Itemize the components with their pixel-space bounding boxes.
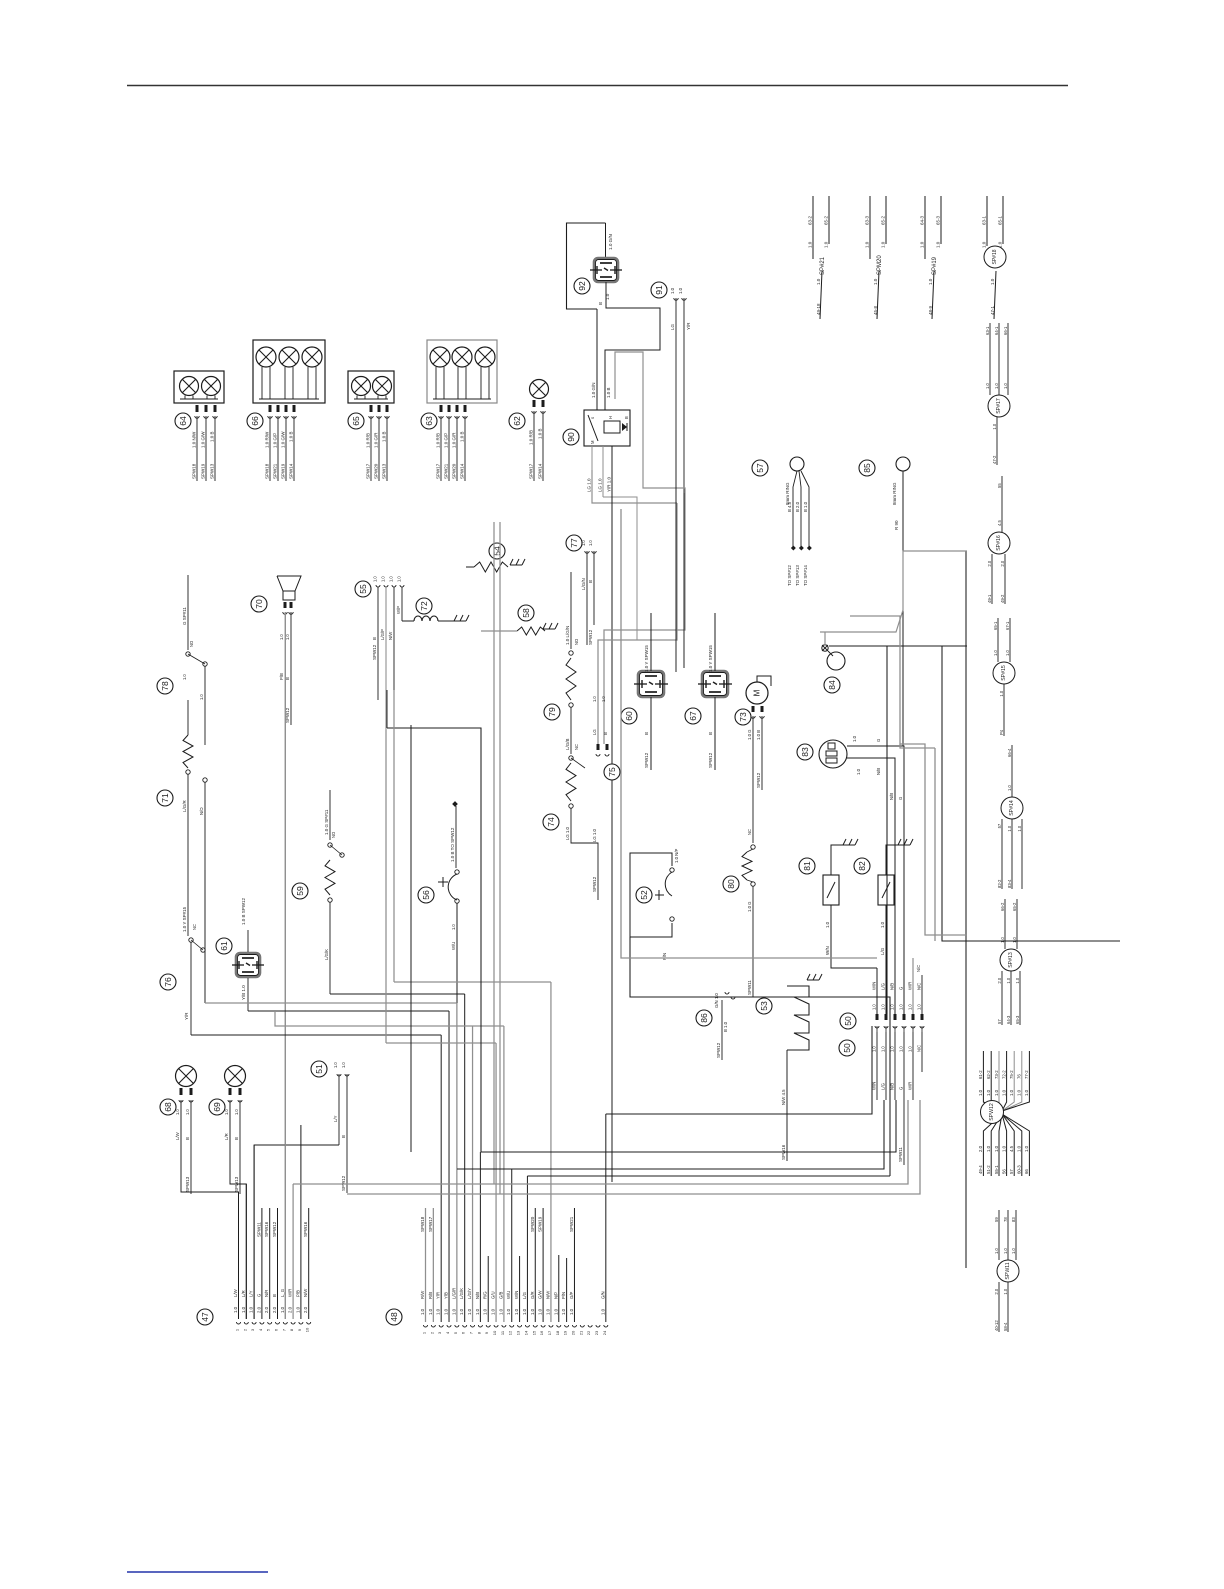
svg-text:1.0 G/R: 1.0 G/R	[452, 432, 457, 448]
svg-text:1.0: 1.0	[182, 674, 187, 680]
svg-text:51-2: 51-2	[986, 1165, 991, 1174]
svg-text:L/G: L/G	[881, 1082, 886, 1090]
svg-text:1.0: 1.0	[986, 1089, 991, 1096]
svg-text:61: 61	[219, 941, 229, 951]
svg-text:SPW18: SPW18	[192, 463, 197, 479]
svg-text:76: 76	[163, 977, 173, 987]
svg-text:SPW18: SPW18	[265, 463, 270, 479]
svg-text:B 1.0: B 1.0	[803, 501, 808, 512]
svg-text:1.0: 1.0	[234, 1109, 239, 1115]
svg-text:N/C: N/C	[916, 965, 921, 972]
svg-text:N/B: N/B	[889, 793, 894, 800]
svg-text:50: 50	[843, 1016, 853, 1026]
svg-text:1.0: 1.0	[917, 1004, 922, 1010]
svg-text:83: 83	[800, 747, 810, 757]
svg-text:SPW20: SPW20	[530, 1216, 535, 1232]
svg-text:65-2: 65-2	[824, 215, 829, 225]
svg-text:L/G: L/G	[880, 947, 885, 955]
svg-text:SPW11: SPW11	[1005, 1262, 1011, 1279]
svg-text:1.0: 1.0	[279, 634, 284, 640]
svg-text:L/G/K: L/G/K	[459, 1288, 464, 1299]
svg-text:W/N: W/N	[514, 1291, 519, 1299]
svg-text:1.0 R/W: 1.0 R/W	[265, 431, 270, 448]
svg-text:18: 18	[555, 1330, 560, 1335]
svg-text:57: 57	[1009, 1169, 1014, 1174]
svg-text:1.0: 1.0	[824, 241, 829, 248]
svg-text:78: 78	[160, 681, 170, 691]
svg-text:1.0: 1.0	[588, 540, 593, 546]
svg-text:L/R: L/R	[241, 1290, 246, 1297]
svg-text:B: B	[341, 1135, 346, 1138]
svg-text:86: 86	[699, 1013, 709, 1023]
svg-text:SPW17: SPW17	[529, 463, 534, 479]
svg-text:57: 57	[997, 1019, 1002, 1024]
svg-text:B: B	[598, 302, 603, 305]
svg-text:1.0: 1.0	[592, 696, 597, 702]
svg-text:91: 91	[654, 285, 664, 295]
svg-text:1.0 B: 1.0 B	[756, 730, 761, 740]
svg-text:1.0: 1.0	[600, 1308, 605, 1315]
svg-text:1.0: 1.0	[545, 1308, 550, 1315]
svg-text:SPM20: SPM20	[877, 255, 883, 275]
svg-text:65-3: 65-3	[936, 215, 941, 225]
svg-text:1.0: 1.0	[1003, 383, 1008, 389]
svg-text:78: 78	[1003, 1217, 1008, 1222]
svg-text:90: 90	[566, 432, 576, 442]
svg-text:1.0: 1.0	[1007, 785, 1012, 791]
svg-text:65-2: 65-2	[881, 215, 886, 225]
svg-text:61-2: 61-2	[978, 1070, 983, 1079]
svg-text:8mm RING: 8mm RING	[785, 482, 790, 505]
svg-text:1.0: 1.0	[397, 576, 402, 582]
svg-text:L/G/P: L/G/P	[380, 629, 385, 640]
svg-text:R/G: R/G	[483, 1291, 488, 1299]
svg-text:1.0: 1.0	[249, 1306, 254, 1313]
svg-text:58: 58	[521, 608, 531, 618]
svg-text:71: 71	[160, 793, 170, 803]
svg-text:66-2: 66-2	[1000, 902, 1005, 911]
svg-text:2.0: 2.0	[303, 1306, 308, 1313]
svg-text:Y/R: Y/R	[686, 322, 691, 330]
svg-text:TO SP#12: TO SP#12	[787, 565, 792, 586]
svg-text:1.0 B: 1.0 B	[210, 431, 215, 442]
svg-text:67-1: 67-1	[1005, 621, 1010, 630]
svg-text:SPW12: SPW12	[592, 876, 597, 892]
svg-text:1.0: 1.0	[992, 423, 997, 429]
svg-text:59: 59	[994, 1217, 999, 1222]
svg-text:SPW13: SPW13	[382, 463, 387, 479]
svg-text:L/R: L/R	[224, 1133, 229, 1140]
svg-text:1.0: 1.0	[852, 735, 857, 742]
svg-text:2.0: 2.0	[987, 560, 992, 566]
svg-text:64-3: 64-3	[920, 215, 925, 225]
svg-text:56: 56	[421, 890, 431, 900]
svg-text:SPW17: SPW17	[436, 463, 441, 479]
svg-text:1.0: 1.0	[389, 576, 394, 582]
svg-text:4.5: 4.5	[997, 520, 1002, 526]
svg-text:L/Y: L/Y	[333, 1115, 338, 1122]
svg-text:SPW19: SPW19	[281, 463, 286, 479]
svg-text:48: 48	[389, 1312, 399, 1322]
svg-text:1.0: 1.0	[1003, 1248, 1008, 1254]
svg-text:L/W: L/W	[175, 1131, 180, 1140]
svg-text:1.0: 1.0	[982, 241, 987, 248]
svg-text:84: 84	[827, 680, 837, 690]
svg-text:53: 53	[759, 1001, 769, 1011]
svg-text:B 2.0: B 2.0	[795, 501, 800, 512]
svg-text:SPW12: SPW12	[372, 644, 377, 660]
svg-text:W/N: W/N	[825, 946, 830, 955]
svg-text:63: 63	[424, 416, 434, 426]
svg-text:2.0: 2.0	[994, 1288, 999, 1294]
svg-text:1.0: 1.0	[280, 1306, 285, 1313]
svg-text:72-2: 72-2	[1001, 1070, 1006, 1079]
svg-text:1.0: 1.0	[601, 696, 606, 702]
svg-text:57: 57	[997, 823, 1002, 828]
svg-text:45-8: 45-8	[873, 305, 878, 315]
svg-text:G/U: G/U	[491, 1291, 496, 1299]
svg-text:64: 64	[178, 416, 188, 426]
svg-text:SP#19: SP#19	[932, 256, 938, 275]
svg-text:23: 23	[594, 1330, 599, 1335]
svg-text:TO SP#13: TO SP#13	[795, 565, 800, 586]
svg-text:L/G/K: L/G/K	[324, 949, 329, 960]
svg-text:1.0: 1.0	[233, 1306, 238, 1313]
svg-text:1.0: 1.0	[483, 1308, 488, 1315]
svg-text:1.0: 1.0	[928, 278, 933, 285]
svg-text:1.0: 1.0	[475, 1308, 480, 1315]
svg-text:1.0: 1.0	[899, 1046, 904, 1052]
svg-text:SPW21: SPW21	[444, 463, 449, 479]
svg-text:1.0: 1.0	[936, 241, 941, 248]
svg-text:SPW12: SPW12	[756, 772, 761, 788]
svg-text:1.0 R/B: 1.0 R/B	[366, 433, 371, 448]
svg-text:NC: NC	[747, 829, 752, 835]
svg-text:1.0: 1.0	[899, 1004, 904, 1010]
svg-text:B: B	[272, 1294, 277, 1297]
svg-text:W/R: W/R	[908, 982, 913, 990]
svg-text:1.0: 1.0	[1024, 1145, 1029, 1152]
svg-text:R/B: R/B	[428, 1292, 433, 1299]
svg-text:L/G: L/G	[881, 982, 886, 990]
svg-text:1.0 B: 1.0 B	[538, 428, 543, 439]
svg-text:Y/R: Y/R	[436, 1292, 441, 1299]
svg-text:64-3: 64-3	[1006, 1015, 1011, 1024]
svg-text:66: 66	[1024, 1169, 1029, 1174]
svg-text:SPW17: SPW17	[428, 1216, 433, 1232]
svg-text:16: 16	[539, 1330, 544, 1335]
svg-text:2.0: 2.0	[264, 1306, 269, 1313]
svg-text:NC: NC	[192, 924, 197, 930]
svg-text:SPW12: SPW12	[708, 752, 713, 768]
svg-text:40-12: 40-12	[994, 1320, 999, 1331]
svg-text:B: B	[603, 732, 608, 735]
svg-text:N/P: N/P	[553, 1292, 558, 1299]
svg-text:N/C: N/C	[917, 1045, 922, 1052]
svg-text:92: 92	[577, 281, 587, 291]
svg-text:1.0 G/N: 1.0 G/N	[591, 382, 596, 398]
svg-text:47-1: 47-1	[990, 305, 995, 315]
svg-text:49-18: 49-18	[816, 303, 821, 315]
svg-text:63-3: 63-3	[865, 215, 870, 225]
svg-text:P/N: P/N	[561, 1292, 566, 1299]
svg-text:B: B	[644, 732, 649, 735]
svg-text:1.0: 1.0	[569, 1308, 574, 1315]
svg-text:SPW13: SPW13	[210, 463, 215, 479]
svg-text:N/B: N/B	[890, 983, 895, 990]
svg-text:1.0 B: 1.0 B	[289, 431, 294, 442]
svg-text:2.0: 2.0	[1000, 560, 1005, 566]
svg-text:1.0: 1.0	[451, 1308, 456, 1315]
svg-text:L/Y: L/Y	[249, 1290, 254, 1297]
svg-text:1.0: 1.0	[908, 1004, 913, 1010]
svg-text:N/C: N/C	[917, 983, 922, 990]
svg-text:1.0 R/B: 1.0 R/B	[436, 433, 441, 448]
svg-text:1.0: 1.0	[990, 278, 995, 285]
svg-text:1.0: 1.0	[381, 576, 386, 582]
svg-text:TO SP#14: TO SP#14	[803, 565, 808, 586]
svg-text:W/N: W/N	[872, 982, 877, 990]
svg-text:13: 13	[516, 1330, 521, 1335]
svg-text:10: 10	[305, 1327, 310, 1332]
svg-text:Y/B 1.0: Y/B 1.0	[241, 985, 246, 1000]
svg-text:B: B	[588, 580, 593, 583]
svg-text:SPW14: SPW14	[460, 463, 465, 479]
svg-text:62: 62	[512, 416, 522, 426]
svg-text:1.0: 1.0	[1009, 1089, 1014, 1096]
svg-text:SPW12: SPW12	[716, 1042, 721, 1058]
svg-text:LG: LG	[592, 729, 597, 735]
svg-text:63-1: 63-1	[985, 326, 990, 335]
svg-text:W/R: W/R	[908, 1082, 913, 1090]
svg-text:1.0 Y SP#15: 1.0 Y SP#15	[182, 906, 187, 932]
svg-text:62-2: 62-2	[986, 1070, 991, 1079]
svg-text:1.0: 1.0	[199, 694, 204, 700]
svg-text:73-2: 73-2	[994, 1070, 999, 1079]
svg-text:65-3: 65-3	[1015, 1015, 1020, 1024]
svg-text:55: 55	[358, 584, 368, 594]
svg-text:2.0: 2.0	[978, 1145, 983, 1152]
svg-text:H: H	[608, 416, 613, 419]
svg-text:19: 19	[563, 1330, 568, 1335]
svg-text:N/B: N/B	[876, 768, 881, 775]
svg-text:SPW19: SPW19	[538, 1216, 543, 1232]
svg-text:SPW14: SPW14	[538, 463, 543, 479]
svg-text:B: B	[185, 1137, 190, 1140]
svg-text:1.0 G/P: 1.0 G/P	[273, 433, 278, 448]
svg-text:LG 1.0: LG 1.0	[598, 478, 603, 492]
svg-text:1.0: 1.0	[880, 921, 885, 928]
svg-text:SPW14: SPW14	[289, 463, 294, 479]
svg-text:75: 75	[607, 767, 617, 777]
svg-text:G/N: G/N	[600, 1291, 605, 1299]
svg-text:L/G/R: L/G/R	[451, 1288, 456, 1299]
svg-text:63-2: 63-2	[808, 215, 813, 225]
svg-text:1.0: 1.0	[341, 1062, 346, 1068]
svg-text:85: 85	[862, 463, 872, 473]
svg-text:NO: NO	[189, 641, 194, 647]
svg-text:SPW20: SPW20	[452, 463, 457, 479]
svg-text:22: 22	[586, 1330, 591, 1335]
svg-text:M: M	[753, 689, 762, 696]
svg-text:W/R: W/R	[288, 1289, 293, 1297]
svg-text:1.0 Y SPW15: 1.0 Y SPW15	[644, 645, 649, 672]
svg-text:49-4: 49-4	[978, 1165, 983, 1174]
svg-text:1.0: 1.0	[522, 1308, 527, 1315]
svg-text:1.0: 1.0	[986, 1145, 991, 1152]
svg-text:SPW11: SPW11	[898, 1147, 903, 1162]
svg-text:1.0: 1.0	[459, 1308, 464, 1315]
svg-text:SP#17: SP#17	[996, 398, 1002, 414]
svg-text:P/B: P/B	[279, 673, 284, 680]
svg-text:LG: LG	[670, 323, 675, 330]
svg-text:L/G/R: L/G/R	[182, 799, 187, 812]
svg-text:1.0: 1.0	[999, 690, 1004, 696]
svg-text:W/P: W/P	[396, 606, 401, 614]
svg-text:1.0 N/W: 1.0 N/W	[192, 431, 197, 448]
svg-text:2.0: 2.0	[256, 1306, 261, 1313]
svg-text:SPW11: SPW11	[747, 980, 752, 995]
svg-text:SPW17: SPW17	[366, 463, 371, 479]
svg-text:1.0: 1.0	[865, 241, 870, 248]
svg-text:82: 82	[857, 861, 867, 871]
svg-text:1.0 Y SPW15: 1.0 Y SPW15	[708, 645, 713, 672]
svg-text:1.0 R/B: 1.0 R/B	[529, 430, 534, 445]
svg-text:83-4: 83-4	[1007, 879, 1012, 888]
svg-text:1.0: 1.0	[561, 1308, 566, 1315]
svg-text:B: B	[372, 637, 377, 640]
svg-text:57: 57	[755, 463, 765, 473]
svg-text:SPW20: SPW20	[374, 463, 379, 479]
svg-text:1.0: 1.0	[451, 924, 456, 930]
svg-text:1.0: 1.0	[1000, 937, 1005, 943]
svg-text:SP#21: SP#21	[820, 256, 826, 275]
svg-text:L/G: L/G	[522, 1291, 527, 1299]
svg-text:1.0: 1.0	[1017, 1089, 1022, 1096]
svg-text:65-2: 65-2	[1012, 902, 1017, 911]
svg-text:1.0: 1.0	[881, 1004, 886, 1010]
svg-text:Y/B: Y/B	[444, 1292, 449, 1299]
svg-text:1.0: 1.0	[467, 1308, 472, 1315]
svg-text:2.0: 2.0	[272, 1306, 277, 1313]
svg-text:70: 70	[254, 599, 264, 609]
svg-text:B 4.5: B 4.5	[787, 501, 792, 512]
svg-text:1.0 B: 1.0 B	[460, 431, 465, 442]
svg-text:R 90: R 90	[894, 520, 899, 530]
svg-text:1.0: 1.0	[881, 1046, 886, 1052]
svg-text:68: 68	[163, 1102, 173, 1112]
svg-text:SP#18: SP#18	[992, 249, 998, 264]
svg-text:Y/R: Y/R	[184, 1012, 189, 1020]
svg-text:14: 14	[523, 1330, 528, 1335]
svg-text:1.0 N/P: 1.0 N/P	[674, 849, 679, 863]
svg-text:SPW16: SPW16	[303, 1221, 308, 1237]
svg-text:1.0: 1.0	[1017, 825, 1022, 831]
svg-text:1.0 B TO SPW12: 1.0 B TO SPW12	[450, 827, 455, 862]
svg-text:63-1: 63-1	[982, 215, 987, 225]
svg-text:NO: NO	[574, 639, 579, 645]
svg-text:N/W 4.5: N/W 4.5	[781, 1089, 786, 1105]
svg-text:56: 56	[1001, 1169, 1006, 1174]
svg-text:s: s	[590, 417, 595, 419]
svg-text:1.0 G/W: 1.0 G/W	[281, 431, 286, 448]
svg-text:1.0: 1.0	[1024, 1089, 1029, 1096]
svg-text:10: 10	[492, 1330, 497, 1335]
svg-text:65-1: 65-1	[998, 215, 1003, 225]
svg-text:1.0 B: 1.0 B	[382, 431, 387, 442]
svg-text:G/P: G/P	[569, 1291, 574, 1299]
svg-text:1.0: 1.0	[978, 1089, 983, 1096]
svg-text:G/W: G/W	[538, 1289, 543, 1299]
svg-text:2.0: 2.0	[288, 1306, 293, 1313]
svg-text:SPW13: SPW13	[185, 1176, 190, 1192]
svg-text:1.0: 1.0	[506, 1308, 511, 1315]
svg-text:L/G/Y: L/G/Y	[467, 1288, 472, 1299]
svg-text:1.0: 1.0	[491, 1308, 496, 1315]
svg-text:1.0 G/R: 1.0 G/R	[374, 432, 379, 448]
svg-text:SP#16: SP#16	[996, 535, 1002, 551]
svg-text:1.0: 1.0	[1011, 1248, 1016, 1254]
svg-text:1.0: 1.0	[444, 1308, 449, 1315]
svg-text:1.0: 1.0	[881, 241, 886, 248]
svg-text:77: 77	[569, 538, 579, 548]
svg-text:G SP#11: G SP#11	[182, 607, 187, 625]
svg-text:1.0: 1.0	[1003, 1288, 1008, 1294]
svg-text:N/W: N/W	[303, 1288, 308, 1297]
svg-text:50: 50	[842, 1043, 852, 1053]
svg-text:1.0 G/N: 1.0 G/N	[608, 234, 613, 250]
svg-text:L_G: L_G	[280, 1288, 285, 1297]
svg-text:66: 66	[250, 416, 260, 426]
svg-text:SPW16: SPW16	[264, 1221, 269, 1237]
svg-text:SPW11: SPW11	[256, 1222, 261, 1237]
svg-text:W/U: W/U	[451, 942, 456, 950]
svg-text:1.0 B SPW12: 1.0 B SPW12	[241, 897, 246, 925]
svg-text:64-1: 64-1	[994, 326, 999, 335]
svg-text:17: 17	[547, 1330, 552, 1335]
svg-text:83: 83	[1011, 1217, 1016, 1222]
svg-text:76: 76	[1017, 1074, 1022, 1079]
svg-text:W/U: W/U	[506, 1291, 511, 1299]
svg-text:1.0: 1.0	[816, 278, 821, 285]
svg-text:1.0: 1.0	[1015, 977, 1020, 983]
svg-text:55-1: 55-1	[994, 1165, 999, 1174]
svg-text:SPW18: SPW18	[420, 1216, 425, 1232]
svg-text:1.0: 1.0	[538, 1308, 543, 1315]
svg-text:1.0: 1.0	[295, 1306, 300, 1313]
svg-text:N/B: N/B	[475, 1292, 480, 1299]
svg-text:B: B	[624, 416, 629, 419]
svg-text:LG 1.0: LG 1.0	[592, 828, 597, 842]
svg-text:49-2: 49-2	[1000, 594, 1005, 603]
svg-text:1.0: 1.0	[670, 287, 675, 294]
svg-text:1.0: 1.0	[428, 1308, 433, 1315]
svg-text:73: 73	[738, 712, 748, 722]
svg-text:1.0: 1.0	[436, 1308, 441, 1315]
svg-text:Y/R 1.0: Y/R 1.0	[607, 476, 612, 492]
svg-text:L/G/B: L/G/B	[565, 738, 570, 750]
svg-text:L/G/N: L/G/N	[581, 578, 586, 590]
svg-text:1.0: 1.0	[825, 921, 830, 928]
svg-text:P/N: P/N	[662, 953, 667, 960]
svg-text:51: 51	[314, 1064, 324, 1074]
svg-text:1.0 B: 1.0 B	[606, 387, 611, 398]
svg-text:SPW19: SPW19	[201, 463, 206, 479]
svg-text:4.5: 4.5	[1009, 1145, 1014, 1152]
svg-text:SPW21: SPW21	[569, 1216, 574, 1232]
svg-text:P4: P4	[999, 729, 1004, 735]
svg-text:1.0 G/W: 1.0 G/W	[201, 431, 206, 448]
